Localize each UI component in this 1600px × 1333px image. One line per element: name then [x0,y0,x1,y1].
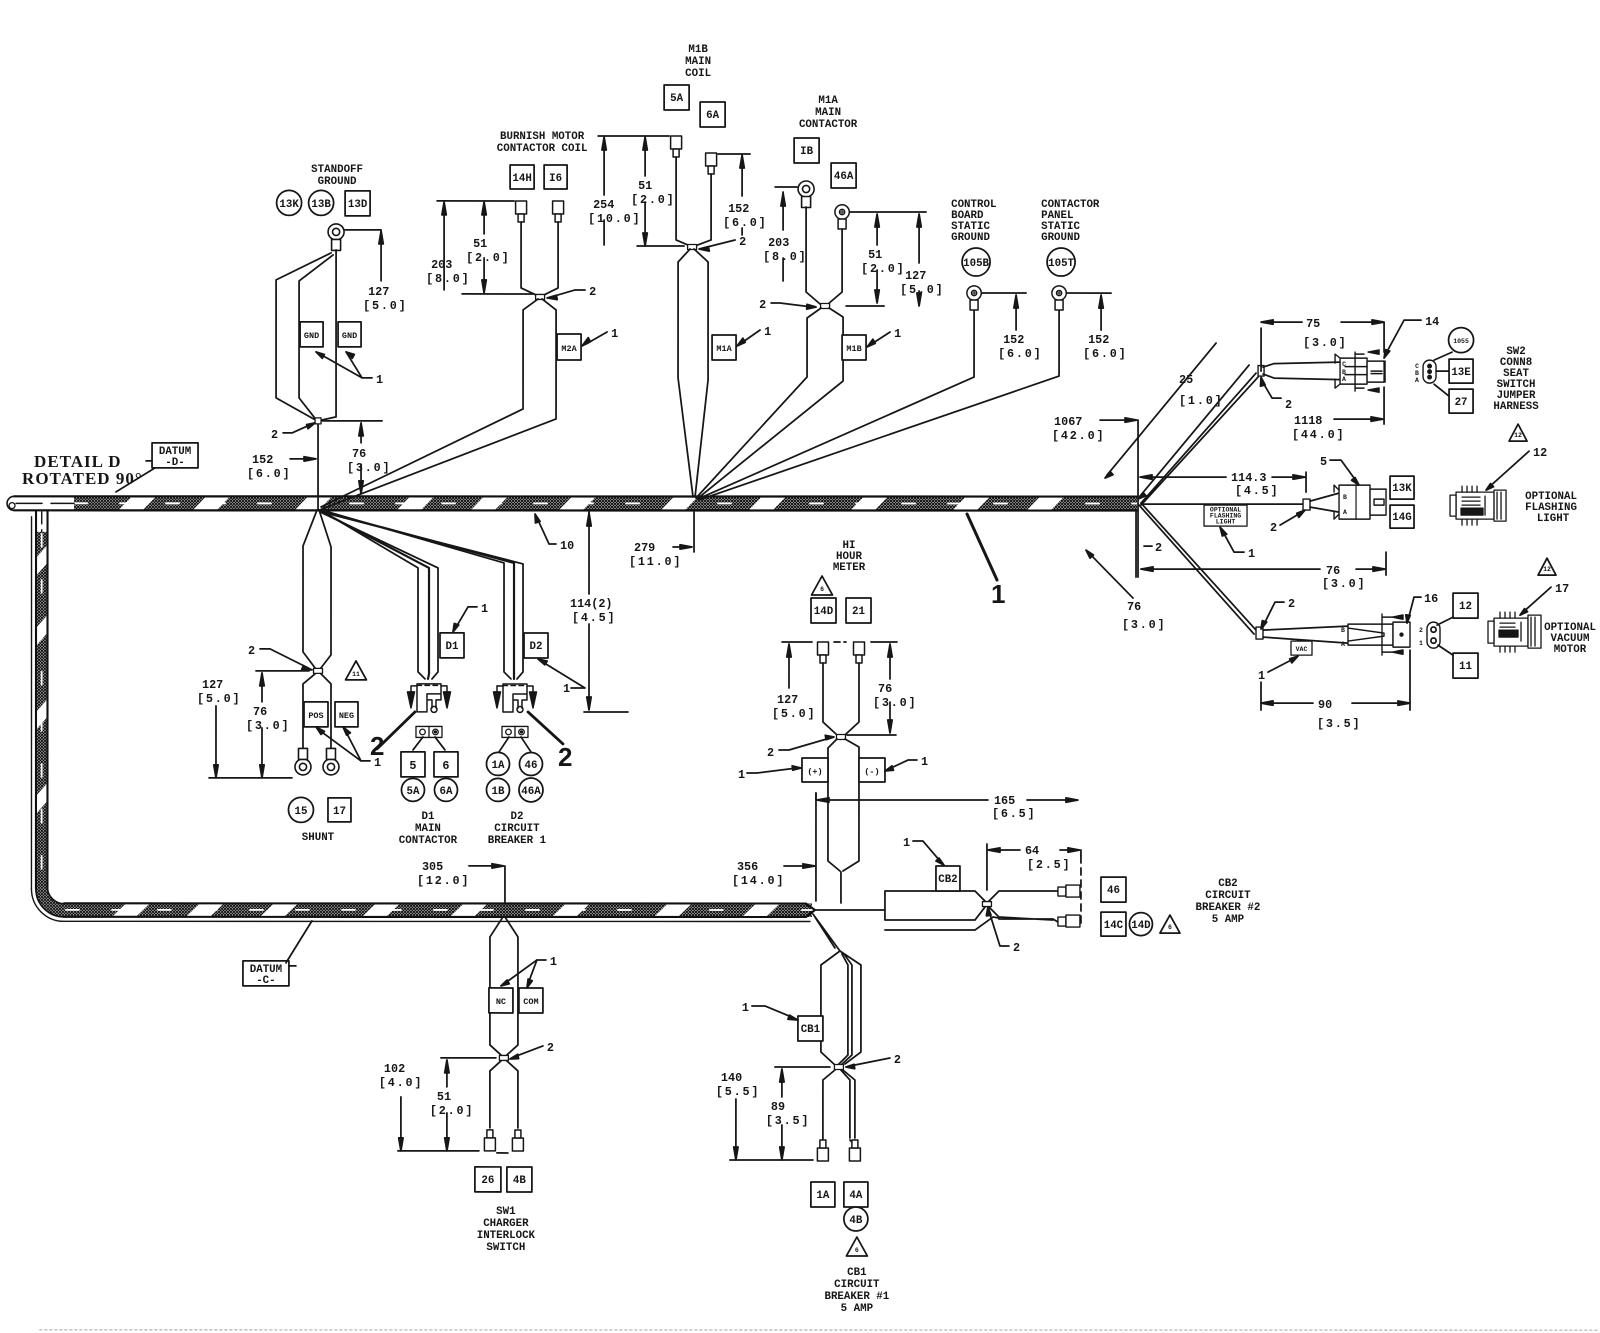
svg-text:5 AMP: 5 AMP [841,1303,874,1315]
extension line burnish [437,200,514,202]
svg-text:VAC: VAC [1296,646,1308,653]
svg-text:14: 14 [1425,315,1439,329]
leader 2 burnish splice [551,290,585,297]
svg-text:B: B [1341,627,1345,634]
connector D1 [407,684,450,713]
extension lines M1B coil [598,136,750,154]
wire 105T to loom fan [699,311,1059,500]
svg-text:2: 2 [1285,398,1292,412]
svg-text:6: 6 [1168,924,1172,931]
wire loom to D1 bundle [320,510,438,679]
svg-text:INTERLOCK: INTERLOCK [477,1230,536,1242]
tick CB1 splice [775,1066,830,1068]
svg-text:12: 12 [1459,601,1472,613]
svg-text:1: 1 [611,327,618,341]
label box GND 2 [338,322,361,347]
leader 2 CB2 [989,911,1009,946]
wire bundle to connector 14 [1263,362,1340,380]
svg-text:1A: 1A [816,1190,829,1202]
wire loom to vacuum terminal [1139,503,1256,634]
leader 17 [1523,587,1551,612]
label box (+) [802,758,828,782]
svg-text:105T: 105T [1048,258,1074,270]
svg-text:[4.0]: [4.0] [379,1076,423,1090]
svg-text:CIRCUIT: CIRCUIT [1205,890,1251,902]
wire loom to SW1 bundle [490,917,518,1055]
svg-text:5: 5 [1320,455,1327,469]
terminal plug SW1 B [512,1130,523,1151]
terminal CB2 A [1058,887,1066,896]
triangle note 6 cb1 [846,1237,867,1256]
circuit box 14H [510,165,534,189]
cable label M1A [712,335,736,360]
svg-text:C: C [1415,363,1419,370]
circuit box 12 vac [1453,593,1478,618]
svg-text:ROTATED 90°: ROTATED 90° [22,469,143,488]
terminal plug M1B coil A [671,136,682,157]
circuit box 6 [434,752,458,777]
terminal plug CB1 B [849,1140,860,1161]
leader 10 to loom [537,518,556,544]
leader 2 flashing terminal [1280,512,1302,525]
leader 1 to M1B box [870,332,890,345]
svg-text:CONTACTOR COIL: CONTACTOR COIL [497,143,588,155]
fuse holder D2 [502,726,528,737]
triangle note 12 upper [1509,424,1527,441]
svg-text:(+): (+) [807,767,822,777]
svg-text:BREAKER #1: BREAKER #1 [824,1291,889,1303]
circuit box I6 [544,165,567,189]
wire CB1 bundle [821,951,861,1066]
dimension 76 [3.0] standoff [322,421,382,443]
wire burnish to splice [462,222,558,296]
terminal CB2 B [1058,917,1066,926]
wires fuse to circles D2 [499,737,531,752]
circuit circle 14D cb2 [1129,913,1152,936]
svg-text:[2.5]: [2.5] [1027,858,1071,872]
svg-text:26: 26 [481,1175,494,1187]
svg-text:I6: I6 [549,173,562,185]
svg-text:[11.0]: [11.0] [629,555,682,569]
svg-text:76: 76 [352,447,366,461]
terminal plug SW1 A [484,1130,495,1151]
svg-text:17: 17 [1555,582,1569,596]
svg-text:1: 1 [1248,547,1255,561]
ring terminal standoff [328,224,344,251]
svg-text:51: 51 [868,248,882,262]
baseline SW1 [398,1151,508,1153]
ring terminal M1A-2 [835,205,849,229]
wire loom to D2 bundle [321,510,523,679]
wire burnish below splice to loom [321,299,556,509]
svg-text:203: 203 [768,236,789,250]
connector oval vacuum [1427,622,1440,648]
cable label D1 [440,633,464,658]
leader 1 left plus box [747,768,797,773]
svg-text:13D: 13D [348,199,368,211]
svg-text:51: 51 [473,237,487,251]
wire CB2 trapezoid [885,891,999,930]
svg-text:[3.0]: [3.0] [1122,618,1166,632]
svg-text:[3.0]: [3.0] [246,719,290,733]
svg-text:102: 102 [384,1062,405,1076]
svg-text:1067: 1067 [1054,415,1082,429]
wire loom end to CB1 bundle [813,914,840,951]
dimension 89 [3.5] CB1 [781,1072,783,1156]
svg-text:51: 51 [437,1090,451,1104]
circuit circle 105T [1047,248,1075,276]
svg-text:64: 64 [1025,844,1039,858]
svg-text:25: 25 [1179,373,1193,387]
svg-text:152: 152 [1003,333,1024,347]
circuit box 46A [831,163,856,188]
svg-text:MAIN: MAIN [685,56,711,68]
svg-text:[2.0]: [2.0] [861,262,905,276]
dimension 25 [1.0] diagonal [1107,343,1249,496]
leader 1 to M2A [586,332,607,344]
leader 1 right minus box [889,760,917,769]
circuit box 27 [1434,384,1449,396]
wire CB2 to terminals [989,891,1058,922]
svg-text:[3.5]: [3.5] [766,1114,810,1128]
label box POS [304,702,328,727]
svg-text:A: A [1342,376,1346,383]
circuit circle 6A [434,778,457,801]
svg-text:BREAKER #2: BREAKER #2 [1196,902,1261,914]
svg-text:13E: 13E [1451,367,1471,379]
svg-text:14D: 14D [1131,920,1151,932]
svg-text:105B: 105B [963,258,989,270]
svg-text:1: 1 [894,327,901,341]
svg-text:NC: NC [496,997,506,1007]
ring terminal 105T [1052,286,1066,310]
ring terminal shunt POS [295,748,311,775]
leader 2 to standoff gather [283,424,312,433]
svg-text:CB2: CB2 [1218,878,1237,890]
svg-text:CONTACTOR: CONTACTOR [799,119,858,131]
wire bundle to connector 16 [1263,626,1348,643]
svg-text:127: 127 [905,269,926,283]
svg-text:CB1: CB1 [847,1267,867,1279]
leader 1 to D2 [541,661,585,688]
svg-text:1: 1 [376,373,383,387]
svg-text:[2.0]: [2.0] [430,1104,474,1118]
terminal plug burnish B [553,201,564,222]
dimension 165 [6.5] [816,793,1075,800]
leader 1 to D1 and D2 [455,607,477,629]
leader 1 to M1A box [740,330,760,344]
extension ticks hour meter [782,641,897,643]
svg-text:COIL: COIL [685,68,711,80]
wire main harness loom (lower band) [64,903,815,917]
svg-text:A: A [1415,377,1419,384]
svg-text:76: 76 [253,705,267,719]
circuit box 14G [1390,505,1414,528]
terminal plug M1B coil B [706,153,717,174]
dimension 102 [4.0] [400,1097,402,1147]
svg-text:114.3: 114.3 [1231,471,1266,485]
svg-text:1: 1 [991,579,1005,609]
label box GND 1 [300,322,323,347]
svg-text:[3.0]: [3.0] [347,461,391,475]
svg-text:[5.0]: [5.0] [772,707,816,721]
label box OPTIONAL FLASHING LIGHT small [1204,505,1247,526]
triangle note 12 lower [1538,558,1556,575]
svg-text:2: 2 [767,746,774,760]
svg-text:46: 46 [1107,885,1120,897]
svg-text:[3.5]: [3.5] [1317,717,1361,731]
svg-text:[44.0]: [44.0] [1292,428,1345,442]
connector 14 housing [1335,350,1385,392]
terminal seat-switch [1258,366,1264,377]
svg-text:A: A [1341,641,1345,648]
baseline shunt [209,777,292,779]
leader 2 vacuum terminal [1263,602,1284,626]
svg-text:11: 11 [352,671,360,678]
svg-text:15: 15 [294,806,307,818]
svg-text:[12.0]: [12.0] [417,874,470,888]
svg-text:GROUND: GROUND [951,232,990,244]
svg-text:[6.0]: [6.0] [247,467,291,481]
svg-text:SWITCH: SWITCH [486,1242,525,1254]
leader 2 big D1 [377,712,415,749]
svg-text:46: 46 [524,760,537,772]
dimension 64 [2.5] [987,844,1081,890]
leader 1 heavy to loom [967,514,997,580]
wire loom end to CB2 [815,909,885,911]
circuit box 14D [811,598,836,623]
svg-text:1B: 1B [491,786,504,798]
circuit circle 1B [486,778,509,801]
svg-text:D2: D2 [530,641,543,653]
wire hour meter to splice [823,663,859,734]
svg-text:[4.5]: [4.5] [1235,484,1279,498]
wire 105B to loom fan [698,311,974,499]
svg-text:[2.0]: [2.0] [631,193,675,207]
wire terminal to connector 5 [1310,493,1339,512]
leader 2 M1A splice [771,303,812,307]
svg-text:152: 152 [252,453,273,467]
dimension 152 [6.0] M1B [741,159,743,235]
circuit circle 1055 [1449,328,1474,353]
circuit circle 46A [519,778,543,802]
dimension 356 [14.0] [784,793,816,901]
splice M1A [821,304,830,309]
svg-text:M1B: M1B [688,44,708,56]
circuit box 46 cb2 [1101,877,1126,902]
svg-text:GROUND: GROUND [1041,232,1080,244]
svg-text:1: 1 [742,1001,749,1015]
circuit box 1B [794,138,819,163]
splice burnish [536,294,545,299]
svg-text:127: 127 [202,678,223,692]
dimension 254 [10.0] [603,141,605,245]
svg-text:STANDOFF: STANDOFF [311,164,363,176]
svg-text:[5.0]: [5.0] [363,299,407,313]
svg-text:2: 2 [759,298,766,312]
leader 14 [1385,320,1421,355]
circuit box 4A cb1 [844,1182,868,1207]
dimension 90 [3.5] [1261,650,1410,710]
dimension 279 [11.0] [673,512,694,552]
svg-text:[14.0]: [14.0] [732,874,785,888]
svg-text:(-): (-) [864,767,879,777]
svg-text:HARNESS: HARNESS [1493,401,1539,413]
dimension 51 [2.0] burnish [483,206,485,290]
svg-text:2: 2 [739,235,746,249]
leader 2 big D2 [528,712,563,744]
leader 2 M1B splice [703,240,735,248]
circuit box 26 [475,1167,501,1192]
splice M1B coil [688,244,697,249]
svg-text:[3.0]: [3.0] [1322,577,1366,591]
ring terminal 105B [967,286,981,310]
svg-text:1A: 1A [491,760,504,772]
circuit circle 13B [309,190,334,215]
svg-text:76: 76 [1326,564,1340,578]
svg-text:[1.0]: [1.0] [1179,394,1223,408]
svg-text:75: 75 [1306,317,1320,331]
wire M1B coil to splice [637,157,711,246]
circuit box 17 [328,798,351,822]
svg-text:76: 76 [878,682,892,696]
fuse holder D1 [416,726,442,737]
wire loom to seat-switch connector [1141,373,1258,505]
leader 1 to GND boxes [316,352,372,378]
wire shunt below splice [303,674,331,757]
svg-text:5A: 5A [406,786,419,798]
svg-text:B: B [1415,370,1419,377]
svg-text:M1A: M1A [716,344,732,354]
svg-text:-C-: -C- [256,975,275,987]
dimension 127 [5.0] hour meter [788,647,790,688]
circuit circle 4B cb1 [844,1207,868,1231]
svg-text:[10.0]: [10.0] [588,212,641,226]
wire M1A rings to splice [806,207,884,306]
leader 2 hour meter [779,738,830,750]
extension line 105B [982,292,1026,294]
svg-text:[5.5]: [5.5] [716,1085,760,1099]
dimension 127 [5.0] M1A [918,217,920,303]
leader 2 seat terminal [1262,381,1281,398]
dimension 140 [5.5] [735,1099,737,1156]
svg-text:1: 1 [738,768,745,782]
dimension 114(2) [4.5] [584,511,628,712]
svg-text:[3.0]: [3.0] [1303,336,1347,350]
svg-text:5: 5 [409,759,416,773]
dimension 152 [6.0] 105T [1100,298,1102,330]
dimension 51 [2.0] M1A [876,217,878,299]
svg-text:C: C [1342,361,1346,368]
terminal flashing [1303,499,1310,510]
svg-text:1055: 1055 [1453,338,1469,345]
svg-text:152: 152 [728,202,749,216]
triangle note 6 cb2 [1160,915,1180,933]
svg-text:M1B: M1B [846,344,861,354]
svg-text:27: 27 [1455,397,1468,409]
dimension 76 [3.0] flashing [1141,552,1386,575]
dimension 76 [3.0] vacuum diag [1089,510,1136,598]
ring terminal M1A-1 [798,181,814,208]
leader 1 vacuum label [1268,658,1295,672]
circuit box 5 [401,752,425,777]
svg-text:6: 6 [820,586,824,593]
cable label D2 [524,633,548,658]
terminal vacuum [1256,627,1263,639]
leader 12 flashing [1489,451,1529,487]
dimension 114.3 [4.5] [1143,472,1306,492]
svg-text:M1A: M1A [818,95,838,107]
svg-text:GND: GND [342,331,357,341]
label box NC [489,988,513,1013]
svg-text:46A: 46A [834,171,854,183]
extension lines M1A [775,187,926,212]
svg-text:CIRCUIT: CIRCUIT [494,823,540,835]
wire loom to flashing terminal [1141,503,1303,505]
circuit circle 105B [962,248,990,276]
connector 16 housing [1341,614,1410,655]
dimension 51 [2.0] SW1 [446,1063,448,1147]
datum flag DATUM -C- [243,961,289,986]
wire loom to shunt bundle [303,510,331,668]
circuit circle 15 [288,797,313,822]
splice CB2 [982,902,991,907]
wire SW1 below splice [490,1061,518,1128]
cable label M2A [557,334,581,360]
svg-text:SHUNT: SHUNT [302,832,335,844]
svg-text:MOTOR: MOTOR [1554,644,1587,656]
dimension 75 [3.0] [1261,322,1384,371]
svg-text:2: 2 [1013,941,1020,955]
svg-text:[6.0]: [6.0] [998,347,1042,361]
circuit circle 5A [401,778,424,801]
wire left vertical loom [36,511,48,889]
wire standoff fan [276,250,336,421]
label box VAC [1291,641,1312,655]
dimension 203 [8.0] burnish [443,206,445,290]
svg-text:12: 12 [1533,446,1547,460]
leader 1 shunt boxes [319,730,370,761]
svg-text:14G: 14G [1392,512,1411,524]
icon flashing light connector [1450,486,1506,525]
svg-text:M2A: M2A [561,344,577,354]
svg-text:89: 89 [771,1100,785,1114]
leader 1 SW1 boxes [504,960,546,984]
splice hour meter [836,735,845,740]
svg-text:[6.5]: [6.5] [992,807,1036,821]
triangle note 11 [345,661,366,680]
ring terminal shunt NEG [323,748,339,775]
svg-text:LIGHT: LIGHT [1537,513,1570,525]
svg-text:1: 1 [764,325,771,339]
svg-text:A: A [1343,509,1347,516]
svg-text:1: 1 [921,755,928,769]
svg-text:356: 356 [737,860,758,874]
dimension 305 [12.0] [469,866,505,902]
svg-text:1: 1 [563,682,570,696]
svg-text:COM: COM [523,997,538,1007]
wire M1A below splice to loom fan [696,308,843,499]
svg-text:5 AMP: 5 AMP [1212,914,1245,926]
dimension 203 [8.0] M1A [782,192,784,281]
svg-text:6A: 6A [439,786,452,798]
svg-text:14C: 14C [1104,920,1124,932]
svg-text:B: B [1342,369,1346,376]
svg-text:305: 305 [422,860,443,874]
svg-text:GROUND: GROUND [318,176,357,188]
svg-text:127: 127 [777,693,798,707]
svg-text:[6.0]: [6.0] [723,216,767,230]
